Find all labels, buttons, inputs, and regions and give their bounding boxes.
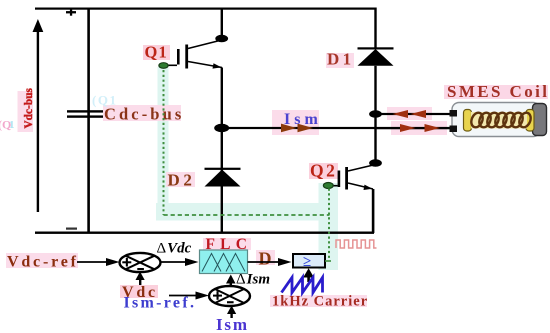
pink highlight behind Q2 label xyxy=(309,163,338,179)
label Ism (measured) xyxy=(216,315,249,333)
gate control dotted line from Q1 xyxy=(163,70,165,215)
svg-text:Ism: Ism xyxy=(216,315,249,333)
node: Q2 drain dot xyxy=(369,159,382,167)
wire: branch 3 top segment (to D1) xyxy=(374,8,376,49)
wire: branch 3 from D1 to upper coil node xyxy=(374,66,376,114)
wire: branch 3 from coil node to Q2 drain node xyxy=(374,114,376,163)
summing junction S2 xyxy=(209,286,250,306)
wire: Ism horizontal to coil xyxy=(222,127,451,129)
label D xyxy=(259,249,272,269)
transistor Q1 xyxy=(164,40,222,69)
wire: Vdc-ref to summer 1 xyxy=(77,258,120,266)
SMES coil body xyxy=(452,103,547,137)
diode D1 xyxy=(358,47,394,66)
wire: upper coil wire xyxy=(376,113,452,115)
FLC fuzzy controller box xyxy=(200,250,248,274)
pink highlight behind D1 label xyxy=(326,53,354,68)
svg-text:Q2: Q2 xyxy=(310,161,337,181)
label D1 xyxy=(327,50,355,69)
node: Ism junction dot xyxy=(214,124,229,132)
carrier arrow into comparator xyxy=(303,268,314,282)
wire: summer1 to FLC xyxy=(161,258,199,266)
current arrows on lower coil wire (pointing right) xyxy=(400,124,440,132)
svg-text:≥: ≥ xyxy=(303,254,311,270)
pink highlight behind Vdc label xyxy=(120,285,158,298)
plus terminal label xyxy=(66,9,76,16)
wire: lower coil wire xyxy=(376,127,451,129)
label delta-Vdc xyxy=(157,241,192,257)
svg-text:Ism-ref.: Ism-ref. xyxy=(124,295,197,312)
cyan band horizontal behind dashed control line xyxy=(156,203,338,221)
wire: Q1 source down to Ism node xyxy=(221,68,223,128)
svg-text:D: D xyxy=(259,249,272,269)
svg-text:Vdc-bus: Vdc-bus xyxy=(23,87,35,128)
pink highlight behind coil upper arrows xyxy=(387,107,432,120)
pink highlight behind Vdc-ref label xyxy=(6,253,78,268)
cyan band behind Q2 gate dotted line xyxy=(319,183,339,270)
svg-text:ΔVdc: ΔVdc xyxy=(157,241,192,257)
label Cdc-bus xyxy=(104,105,184,124)
Vdc-bus arrow xyxy=(33,19,44,212)
node: Q1 gate green terminal xyxy=(159,63,168,69)
gate control dashed horizontal line xyxy=(164,214,330,216)
label 1kHz Carrier xyxy=(272,294,368,310)
pink highlight behind FLC label xyxy=(203,238,251,250)
label Ism xyxy=(284,111,322,128)
svg-text:SMES Coil: SMES Coil xyxy=(447,82,549,101)
ghost artifact left edge xyxy=(0,118,15,132)
svg-text:1: 1 xyxy=(9,119,15,131)
svg-text:ΔIsm: ΔIsm xyxy=(236,272,270,288)
summing junction S1 xyxy=(120,253,161,272)
pink highlight behind 1kHz Carrier label xyxy=(270,295,367,307)
wire: Vdc up into summer1 xyxy=(136,272,145,286)
comparator box xyxy=(293,254,325,270)
PWM square wave xyxy=(336,240,377,248)
label delta-Ism xyxy=(236,272,270,288)
svg-text:Q1: Q1 xyxy=(145,43,168,62)
pink highlight behind D2 label xyxy=(166,172,195,187)
wire: comparator output to gate line xyxy=(325,260,331,262)
minus terminal label xyxy=(66,228,77,230)
diode D2 xyxy=(205,168,241,187)
wire: bottom bus xyxy=(35,232,374,234)
capacitor Cdc-bus xyxy=(67,110,103,118)
wire: FLC to comparator xyxy=(248,258,292,266)
svg-text:D1: D1 xyxy=(327,50,355,69)
svg-text:Ism: Ism xyxy=(284,111,322,128)
svg-text:1kHz Carrier: 1kHz Carrier xyxy=(272,294,368,310)
pink highlight behind D label xyxy=(256,250,275,265)
label Ism-ref. xyxy=(124,295,197,312)
svg-text:D2: D2 xyxy=(168,171,196,190)
pink highlight behind Vdc-bus label xyxy=(18,91,34,132)
pink highlight behind Ism wire label xyxy=(272,110,319,135)
wire: Q2 source down to bottom bus xyxy=(372,189,375,233)
node: Q1 drain dot xyxy=(215,35,228,43)
label Vdc-bus xyxy=(23,87,35,128)
pink highlight behind Q1 label xyxy=(143,45,170,60)
current arrows on Ism wire xyxy=(281,124,313,133)
label Vdc-ref xyxy=(7,254,79,271)
wire: branch 2 lower segment through D2 to bottom xyxy=(221,128,223,232)
wire: branch 2 top segment (to Q1 drain node) xyxy=(221,8,223,38)
pink highlight behind SMES Coil label xyxy=(444,85,548,99)
current arrows on upper coil wire (pointing left) xyxy=(393,110,427,118)
wire: Ism up into summer2 xyxy=(227,306,236,319)
node: Q2 gate green terminal xyxy=(323,183,333,189)
wire: Ism-ref to summer 2 xyxy=(169,292,209,300)
1kHz sawtooth carrier xyxy=(282,278,323,293)
pink highlight behind coil lower arrows xyxy=(391,121,447,135)
label Q2 xyxy=(310,161,337,181)
label Q1 xyxy=(145,43,168,62)
cyan band behind Q1 gate dotted line xyxy=(158,67,169,218)
label Vdc xyxy=(122,284,158,301)
gate control dotted line to Q2 and comparator xyxy=(328,189,330,262)
SMES coil spring winding xyxy=(469,111,533,129)
SMES coil terminals xyxy=(450,110,458,132)
transistor Q2 xyxy=(329,165,376,191)
wire: summer2 up into FLC xyxy=(226,275,236,287)
label FLC xyxy=(206,236,253,253)
pink highlight behind Cdc-bus label xyxy=(103,105,181,121)
svg-text:(Q1: (Q1 xyxy=(92,93,117,108)
wire: top bus xyxy=(35,8,376,10)
label D2 xyxy=(168,171,196,190)
label SMES Coil xyxy=(447,82,549,101)
node: upper coil junction dot xyxy=(369,110,382,118)
svg-text:Vdc-ref: Vdc-ref xyxy=(7,254,79,271)
ghost label Q1 (faint cyan artifact) xyxy=(92,93,117,108)
wire: left dc bus vertical xyxy=(87,8,90,234)
